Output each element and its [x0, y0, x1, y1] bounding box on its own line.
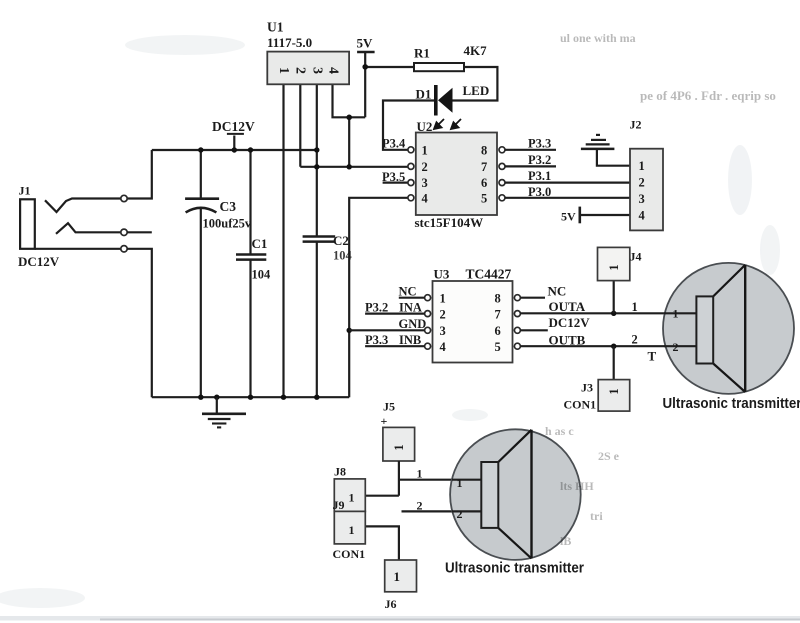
svg-text:2: 2	[457, 507, 463, 521]
wire 5V stem	[364, 52, 366, 117]
svg-text:GND: GND	[399, 317, 427, 331]
svg-text:R1: R1	[414, 46, 430, 61]
node J1 top contact	[121, 195, 127, 201]
svg-text:4: 4	[422, 191, 429, 205]
svg-text:OUTA: OUTA	[549, 299, 586, 314]
junction GND row U3	[347, 328, 352, 333]
scan noise	[545, 31, 776, 548]
svg-text:1: 1	[422, 143, 428, 157]
svg-text:1: 1	[607, 388, 621, 394]
svg-text:1: 1	[607, 264, 621, 270]
svg-text:2: 2	[440, 308, 446, 322]
svg-text:pe of 4P6 . Fdr . eqrip so: pe of 4P6 . Fdr . eqrip so	[640, 88, 776, 103]
svg-text:104: 104	[333, 249, 353, 263]
svg-text:2S e: 2S e	[598, 449, 620, 463]
wire J5 stem	[398, 461, 400, 496]
connector J3 body	[598, 380, 630, 412]
wire U2 pin7 stub P3.2	[505, 165, 556, 167]
svg-text:8: 8	[495, 292, 501, 306]
svg-text:+: +	[381, 414, 388, 428]
svg-text:1: 1	[457, 476, 463, 490]
svg-text:6: 6	[481, 176, 487, 190]
wire P3.5 stub	[383, 182, 409, 184]
svg-text:TC4427: TC4427	[466, 267, 512, 282]
svg-text:1: 1	[276, 67, 291, 74]
wire J9 pin to J6	[365, 526, 399, 560]
svg-text:J9: J9	[333, 498, 345, 512]
svg-text:3: 3	[422, 176, 428, 190]
wire J1 middle switch zigzag	[56, 223, 121, 234]
wire DC12V stub	[520, 329, 547, 331]
svg-text:DC12V: DC12V	[212, 119, 255, 134]
svg-text:P3.4: P3.4	[382, 136, 406, 150]
svg-text:1: 1	[440, 292, 446, 306]
svg-text:2: 2	[673, 340, 679, 354]
wire ground bus	[152, 396, 349, 398]
driver U3 body	[433, 281, 513, 363]
U2 pin circles left	[408, 147, 414, 201]
svg-text:1: 1	[632, 300, 638, 314]
wire U2 pin5 to J2 pin3	[505, 197, 630, 199]
svg-text:2: 2	[417, 499, 423, 513]
wire J1 bottom riser	[127, 249, 152, 397]
wire OUTA stub inside transmitter 1	[664, 312, 696, 314]
svg-text:CON1: CON1	[564, 398, 597, 412]
junction OUTB J3	[611, 344, 616, 349]
wire J2 pin1 to ground	[597, 149, 630, 166]
bottom edge scan band	[0, 616, 800, 621]
svg-text:P3.3: P3.3	[528, 136, 551, 150]
svg-text:7: 7	[495, 308, 501, 322]
svg-text:h as c: h as c	[545, 424, 574, 438]
wire C3 lower lead	[200, 209, 202, 398]
capacitor C3	[185, 199, 219, 213]
svg-text:4: 4	[326, 67, 341, 74]
transmitter 1 speaker symbol	[696, 265, 745, 392]
svg-text:100uf25v: 100uf25v	[203, 217, 252, 231]
wire U3 INB	[365, 345, 425, 347]
U3 pin circles left	[425, 295, 431, 350]
svg-text:3: 3	[639, 192, 645, 206]
wire C2 lower lead	[316, 242, 318, 398]
resistor R1	[414, 63, 464, 71]
svg-text:ul one with ma: ul one with ma	[560, 31, 636, 45]
svg-text:1: 1	[673, 306, 679, 320]
svg-text:1117-5.0: 1117-5.0	[267, 35, 312, 50]
wire DC12V net tick	[233, 136, 235, 151]
svg-text:1: 1	[349, 523, 355, 537]
svg-text:NC: NC	[399, 285, 417, 299]
svg-text:1: 1	[349, 491, 355, 505]
svg-text:tri: tri	[590, 509, 603, 523]
svg-text:1: 1	[417, 467, 423, 481]
svg-text:J1: J1	[19, 184, 31, 198]
wire U1 pin1 to ground bus	[282, 84, 284, 397]
svg-text:P3.3: P3.3	[365, 333, 388, 347]
junction dots ground bus	[198, 395, 203, 400]
connector J1 barrel jack	[20, 199, 35, 249]
wire U3 NC left stub	[399, 297, 425, 299]
wire OUTB stub inside transmitter 1	[664, 345, 696, 347]
svg-text:C2: C2	[333, 233, 349, 248]
svg-text:2: 2	[632, 333, 638, 347]
svg-text:C3: C3	[220, 199, 237, 214]
svg-text:NC: NC	[548, 284, 567, 299]
connector J5 body	[383, 427, 415, 461]
ultrasonic transmitter 2 circle	[450, 429, 581, 560]
svg-text:5: 5	[481, 191, 487, 205]
svg-text:LED: LED	[463, 83, 490, 98]
wire R1 left lead	[365, 66, 414, 68]
wire J1 top switch zigzag	[45, 199, 121, 213]
svg-text:P3.0: P3.0	[528, 185, 551, 199]
svg-text:INB: INB	[399, 333, 421, 347]
wire C1 lower lead	[249, 260, 251, 398]
wire U3 GND	[349, 329, 424, 331]
U2 pin numbers	[422, 143, 488, 205]
capacitor C1	[236, 255, 266, 260]
svg-text:3: 3	[440, 324, 446, 338]
svg-text:J4: J4	[630, 250, 642, 264]
svg-text:J3: J3	[581, 381, 593, 395]
wire OUTA to transmitter	[520, 312, 696, 314]
connector J2 body	[630, 149, 663, 231]
svg-text:1: 1	[639, 159, 645, 173]
wire R1 right lead	[453, 67, 498, 101]
wire J1 top contact riser	[127, 150, 152, 199]
J2 pin numbers	[639, 159, 646, 223]
regulator U1 body	[267, 52, 349, 85]
svg-text:2: 2	[422, 160, 428, 174]
svg-text:P3.1: P3.1	[528, 169, 551, 183]
power 5V bar at J2 pin4	[578, 207, 581, 224]
connector J6 body	[385, 560, 417, 592]
svg-text:DC12V: DC12V	[18, 254, 60, 269]
svg-text:5V: 5V	[357, 36, 374, 51]
connector J9 body	[334, 511, 365, 544]
svg-text:4: 4	[440, 340, 447, 354]
svg-text:J6: J6	[385, 597, 397, 611]
svg-text:DC12V: DC12V	[549, 315, 591, 330]
wire J2 pin4	[580, 214, 630, 216]
ground symbol main	[202, 397, 246, 427]
wire J1 bottom contact	[35, 248, 121, 250]
junction 5V row	[314, 164, 319, 169]
connector J8 body	[334, 479, 365, 512]
wire U1 pin3 down	[316, 84, 318, 236]
U3 pin numbers	[440, 292, 501, 355]
svg-text:P3.5: P3.5	[382, 170, 405, 184]
svg-text:P3.2: P3.2	[528, 153, 551, 167]
svg-text:lB: lB	[560, 534, 571, 548]
svg-text:Ultrasonic transmitter: Ultrasonic transmitter	[445, 561, 584, 577]
wire 5V row to U2 pin2	[300, 166, 409, 168]
wire C3 upper lead	[200, 150, 202, 199]
svg-text:6: 6	[495, 324, 501, 338]
junction dots top rail	[198, 147, 203, 152]
svg-text:C1: C1	[252, 236, 268, 251]
U3 pin circles right	[514, 295, 520, 350]
svg-text:104: 104	[252, 268, 272, 282]
svg-text:5: 5	[495, 340, 501, 354]
svg-text:Ultrasonic transmitter: Ultrasonic transmitter	[663, 396, 800, 412]
svg-text:2: 2	[639, 176, 645, 190]
junction 5V node	[362, 64, 368, 70]
svg-text:INA: INA	[399, 300, 422, 314]
wire J3 stem	[613, 346, 615, 379]
svg-text:2: 2	[293, 67, 308, 74]
wire 1 to transmitter 2	[399, 479, 481, 481]
wire U2 pin6 to J2 pin2	[505, 182, 630, 184]
svg-text:5V: 5V	[561, 210, 576, 224]
capacitor C2	[303, 237, 336, 242]
wire U1 pin2 down	[299, 84, 301, 167]
svg-text:U2: U2	[417, 119, 433, 134]
svg-text:OUTB: OUTB	[549, 333, 586, 348]
wire 2 to transmitter 2	[402, 510, 482, 512]
svg-text:P3.2: P3.2	[365, 300, 388, 314]
svg-text:4: 4	[639, 209, 646, 223]
svg-text:D1: D1	[416, 87, 432, 102]
svg-text:1: 1	[392, 444, 406, 450]
wire D1 cathode to P3.4	[383, 101, 434, 150]
svg-text:3: 3	[309, 67, 324, 74]
svg-text:J8: J8	[334, 465, 346, 479]
svg-text:U3: U3	[434, 267, 450, 282]
svg-text:J2: J2	[630, 118, 642, 132]
junction OUTA J4	[611, 311, 616, 316]
wire J1 middle stub	[127, 231, 152, 233]
wire OUTB to transmitter	[520, 345, 696, 347]
node J1 middle contact	[121, 229, 127, 235]
wire U1 pin4 down	[333, 84, 366, 117]
svg-text:stc15F104W: stc15F104W	[415, 215, 484, 230]
junction pin4 row	[346, 115, 352, 121]
diode D1 LED	[434, 85, 453, 116]
svg-text:lts HH: lts HH	[560, 479, 594, 493]
wire C1 upper lead	[249, 150, 251, 254]
node J1 bottom contact	[121, 246, 127, 252]
svg-text:J5: J5	[383, 400, 395, 414]
svg-text:4K7: 4K7	[464, 43, 488, 58]
transmitter 2 speaker symbol	[481, 430, 531, 559]
wire U2 pin4 to ground branch	[349, 198, 409, 397]
wire J4 stem	[613, 281, 615, 314]
U2 pin circles right	[499, 147, 505, 201]
wire U3 INA	[365, 313, 425, 315]
wire 5V branch vertical	[348, 117, 350, 167]
svg-text:U1: U1	[267, 20, 284, 35]
wire J8 pin	[365, 495, 399, 497]
ultrasonic transmitter 1 circle	[663, 263, 794, 394]
wire U2 pin8 stub P3.3	[505, 149, 556, 151]
wire DC12V rail	[152, 149, 317, 151]
ground symbol inverted at J2	[581, 135, 615, 149]
svg-text:CON1: CON1	[333, 547, 366, 561]
svg-text:7: 7	[481, 160, 487, 174]
wire U3 NC right stub	[520, 297, 545, 299]
svg-text:T: T	[648, 349, 657, 364]
svg-text:1: 1	[394, 569, 401, 584]
MCU U2 body	[416, 133, 497, 216]
power 5V symbol	[357, 51, 375, 54]
svg-text:8: 8	[481, 143, 487, 157]
transmitter 2 wire stubs inside	[452, 479, 481, 481]
connector J4 body	[598, 247, 630, 280]
